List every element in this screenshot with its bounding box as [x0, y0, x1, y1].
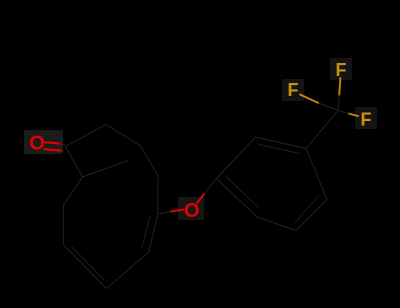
wire C4-C5 (vertical, to ether-bearing carbon)	[157, 176, 159, 214]
halo behind ether O label	[178, 197, 204, 220]
ether bond C5-O1, red half	[171, 210, 183, 212]
carbonyl double bond O=C1, gray halves (C side)	[61, 144, 65, 145]
inner aromatic line C2'-C3'	[259, 145, 299, 154]
ether bond C5-O1, gray half	[158, 212, 171, 215]
inner double-bond line C6-C5	[142, 216, 150, 247]
svg-text:F: F	[288, 80, 299, 100]
wire C3-C4	[141, 146, 159, 176]
bond C(F3)-F1, olive half	[339, 78, 340, 95]
wire C2-C3 (upper chain)	[106, 125, 141, 146]
bond C(F3)-F3, gray half	[338, 111, 349, 114]
svg-text:F: F	[336, 60, 347, 80]
inner aromatic line C4'-C5'	[295, 196, 319, 223]
bond C(F3)-F2, olive half	[300, 95, 319, 104]
bond C(F3)-F3, olive half	[349, 114, 359, 117]
halo behind carbonyl O label	[24, 130, 63, 154]
methyl stub on C10	[83, 161, 129, 178]
bond C(F3)-F2, gray half	[319, 103, 339, 111]
inner double-bond line C8-C7	[72, 247, 104, 280]
ring bond C6-C5	[149, 214, 158, 252]
aryl ring bond C4'-C5'	[296, 200, 327, 231]
svg-text:F: F	[361, 109, 372, 129]
aryl ring bond C6'-C1'	[217, 179, 258, 218]
ring bond C8-C7	[64, 245, 107, 289]
aryl ring bond C3'-C4'	[306, 149, 327, 200]
ether bond O1-C1', red half	[197, 194, 204, 203]
svg-text:O: O	[184, 200, 200, 222]
wire C1-C2 (upper chain)	[66, 125, 107, 147]
ring bond C7-C6	[107, 252, 149, 289]
ring bond C9-C8	[63, 205, 65, 245]
carbonyl double bond O=C1, red halves (O side)	[44, 142, 60, 144]
ring bond C10-C9	[64, 177, 83, 205]
svg-text:O: O	[29, 132, 45, 154]
halo behind F2 label	[282, 79, 304, 101]
halo behind F3 label	[355, 107, 377, 129]
aryl ring bond C1'-C2'	[217, 137, 256, 179]
aryl ring bond C2'-C3' (CF3-bearing side)	[256, 137, 307, 149]
bond C(F3)-F1, gray half	[338, 95, 339, 111]
inner aromatic line C6'-C1'	[226, 177, 260, 209]
wire C1-C10	[66, 147, 83, 178]
ether bond O1-C1', gray half	[204, 179, 217, 195]
aryl ring bond C5'-C6'	[257, 217, 296, 231]
halo behind F1 label	[330, 58, 352, 80]
bond C3'-C(F3)	[306, 111, 338, 149]
